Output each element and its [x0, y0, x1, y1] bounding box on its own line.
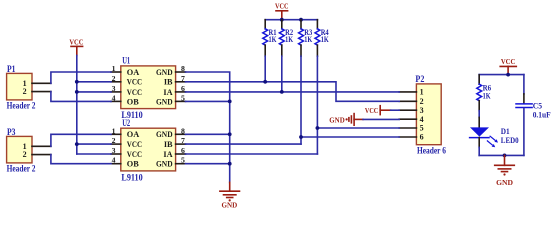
svg-text:1: 1: [112, 126, 116, 135]
P2 pin 3 stub: [399, 109, 416, 111]
svg-text:U1: U1: [122, 56, 130, 66]
junction R2/IA1: [280, 90, 284, 94]
svg-text:GND: GND: [156, 160, 173, 169]
capacitor C5 top pin: [523, 94, 525, 103]
GND stub (mid): [229, 182, 231, 191]
resistor R6 top pin: [478, 75, 480, 84]
svg-text:VCC: VCC: [127, 88, 142, 97]
svg-text:Header 2: Header 2: [7, 164, 36, 174]
U1 right pin 8 stub: [176, 71, 186, 73]
wire R1 lead down to IB1 net: [264, 56, 266, 82]
wire resistor top bus: [265, 19, 317, 21]
U1 right pin 7 stub: [176, 81, 186, 83]
svg-text:0.1uF: 0.1uF: [533, 110, 551, 120]
P3 pin 1 stub: [32, 145, 51, 147]
junction GND/bottom rail: [503, 154, 507, 158]
P3 pin 2 stub: [32, 154, 51, 156]
wire P1 pin1 to U1 pin OA: [51, 72, 111, 83]
connector P2 (Header 6) body: [416, 84, 441, 145]
svg-text:VCC: VCC: [127, 150, 142, 159]
resistor R3 body: [299, 29, 304, 45]
U1 left pin 4 stub: [111, 100, 121, 102]
svg-text:4: 4: [112, 156, 116, 165]
svg-text:5: 5: [181, 93, 185, 102]
GND stub to P2 pin4: [354, 118, 363, 120]
junction GND/U1.5: [228, 100, 232, 104]
GND right stub: [504, 155, 506, 165]
svg-text:OA: OA: [127, 68, 139, 77]
U2 right pin 8 stub: [176, 133, 186, 135]
svg-text:2: 2: [420, 97, 424, 106]
U2 left pin 3 stub: [111, 153, 121, 155]
resistor R2 bottom pin: [281, 45, 283, 56]
resistor R3 bottom pin: [300, 45, 302, 56]
P2 pin 1 stub: [399, 91, 416, 93]
wire R4 lead down to IA2 net: [316, 56, 318, 154]
P1 pin 1 stub: [32, 82, 51, 84]
wire right bottom rail: [479, 154, 524, 156]
svg-text:U2: U2: [122, 118, 130, 128]
svg-text:8: 8: [181, 64, 185, 73]
P2 pin 2 stub: [399, 100, 416, 102]
LED D1 cathode pin: [478, 138, 480, 148]
svg-text:2: 2: [23, 150, 27, 159]
wire P1 pin2 to U1 pin OB: [51, 92, 111, 102]
U2 right pin 5 stub: [176, 163, 186, 165]
svg-text:P3: P3: [7, 127, 16, 137]
wire VCC vertical rail: [76, 56, 78, 155]
wire U2 pin6 (IA) to R4 column: [186, 153, 318, 155]
svg-text:GND: GND: [156, 130, 173, 139]
U1 left pin 1 stub: [111, 71, 121, 73]
wire IB2 net to P2 pin6: [301, 136, 399, 138]
wire U2 pin5 to GND rail: [186, 163, 230, 165]
svg-text:Header 2: Header 2: [7, 101, 36, 111]
svg-text:1K: 1K: [285, 34, 293, 44]
wire R6 to D1: [478, 111, 480, 118]
junction R3/P2.6: [299, 135, 303, 139]
junction GND/U2.8: [228, 132, 232, 136]
wire VCC to U2 pin2: [77, 143, 111, 145]
svg-text:7: 7: [181, 136, 185, 145]
ground symbol (mid): [220, 190, 240, 192]
junction VCC/top rail: [506, 73, 510, 77]
svg-text:IB: IB: [164, 78, 173, 87]
svg-text:1: 1: [420, 88, 424, 97]
junction R1/IB1: [263, 80, 267, 84]
resistor R2 top pin: [281, 20, 283, 29]
svg-text:2: 2: [23, 87, 27, 96]
wire P3 pin1 to U2 pin OA: [51, 134, 111, 146]
op-chip U1 L9110 body: [121, 66, 176, 109]
svg-text:VCC: VCC: [275, 2, 289, 11]
svg-text:GND: GND: [156, 97, 173, 106]
junction VCC/U2.2: [75, 142, 79, 146]
svg-text:VCC: VCC: [69, 38, 83, 47]
svg-text:8: 8: [181, 126, 185, 135]
svg-text:L9110: L9110: [121, 173, 143, 183]
svg-text:3: 3: [112, 84, 116, 93]
P2 pin 5 stub: [399, 127, 416, 129]
U1 left pin 3 stub: [111, 91, 121, 93]
U2 right pin 7 stub: [176, 143, 186, 145]
U2 left pin 4 stub: [111, 163, 121, 165]
resistor R6 bottom pin: [478, 101, 480, 111]
junction top bus/R3: [299, 18, 303, 22]
svg-text:VCC: VCC: [127, 140, 142, 149]
svg-text:2: 2: [112, 74, 116, 83]
junction VCC/U1.3: [75, 90, 79, 94]
VCC stub to P2 pin3: [380, 109, 390, 111]
svg-text:IB: IB: [164, 140, 173, 149]
resistor R1 bottom pin: [264, 45, 266, 56]
wire U1 pin7 (IB) to P2 pin2 with jog: [186, 82, 400, 102]
svg-text:IA: IA: [163, 88, 172, 97]
svg-text:Header 6: Header 6: [417, 146, 446, 156]
svg-text:1: 1: [112, 64, 116, 73]
connector P1 (Header 2) body: [7, 73, 32, 100]
resistor R4 bottom pin: [316, 45, 318, 56]
resistor R1 body: [263, 29, 268, 45]
resistor R4 body: [315, 29, 320, 45]
LED D1 cathode bar: [470, 137, 489, 139]
wire C5 to bottom rail: [523, 108, 525, 155]
svg-text:4: 4: [112, 93, 116, 102]
junction R4/P2.5: [316, 126, 320, 130]
wire U1 pin6 (IA) straight to P2 pin1: [186, 91, 400, 93]
U1 right pin 5 stub: [176, 100, 186, 102]
svg-text:GND: GND: [222, 201, 238, 210]
VCC top stub: [281, 11, 283, 20]
op-chip U2 L9110 body: [121, 128, 176, 171]
wire GND to P2 pin4: [363, 118, 399, 120]
P1 pin 2 stub: [32, 91, 51, 93]
junction top bus/R2/VCC: [280, 18, 284, 22]
wire R3 lead down to IB2 net: [300, 56, 302, 144]
wire VCC to U2 pin3: [77, 153, 111, 155]
U1 right pin 6 stub: [176, 91, 186, 93]
wire VCC to U1 pin2: [77, 81, 111, 83]
junction VCC/U1.2: [75, 80, 79, 84]
P2 pin 4 stub: [399, 118, 416, 120]
svg-text:GND: GND: [496, 178, 513, 187]
U2 left pin 2 stub: [111, 143, 121, 145]
svg-text:P1: P1: [7, 64, 16, 74]
wire U1 pin5 to GND rail: [186, 100, 230, 102]
ground symbol (right): [495, 164, 515, 166]
svg-text:1K: 1K: [321, 34, 329, 44]
VCC right stub: [507, 66, 509, 74]
wire P3 pin2 to U2 pin OB: [51, 155, 111, 164]
svg-text:VCC: VCC: [127, 78, 142, 87]
resistor R4 top pin: [316, 20, 318, 29]
svg-text:1K: 1K: [483, 91, 491, 101]
LED D1 anode pin: [478, 117, 480, 127]
wire IA2 net to P2 pin5: [317, 127, 399, 129]
junction GND/U2.5: [228, 162, 232, 166]
svg-text:OA: OA: [127, 130, 139, 139]
svg-text:6: 6: [420, 133, 424, 142]
svg-text:1K: 1K: [269, 34, 277, 44]
wire U1 pin8 to GND rail: [186, 72, 230, 182]
resistor R2 body: [279, 29, 284, 45]
connector P3 (Header 2) body: [7, 136, 32, 163]
svg-text:IA: IA: [163, 150, 172, 159]
wire VCC to U1 pin3: [77, 91, 111, 93]
svg-text:VCC: VCC: [365, 106, 378, 115]
P2 pin 6 stub: [399, 136, 416, 138]
LED D1 triangle: [470, 127, 489, 136]
svg-text:1K: 1K: [304, 34, 312, 44]
resistor R1 top pin: [264, 20, 266, 29]
resistor R6 body: [477, 84, 482, 101]
wire R2 lead down to IA1 net: [281, 56, 283, 92]
svg-text:P2: P2: [415, 74, 424, 84]
svg-text:GND: GND: [156, 68, 173, 77]
svg-text:OB: OB: [127, 160, 139, 169]
svg-text:OB: OB: [127, 97, 139, 106]
svg-text:6: 6: [181, 146, 185, 155]
U1 left pin 2 stub: [111, 81, 121, 83]
LED D1 emission arrows: [487, 136, 498, 148]
svg-text:5: 5: [181, 156, 185, 165]
svg-text:5: 5: [420, 124, 424, 133]
U2 right pin 6 stub: [176, 153, 186, 155]
svg-text:GND: GND: [329, 115, 345, 124]
svg-text:3: 3: [112, 146, 116, 155]
wire right top rail: [479, 74, 524, 76]
VCC left stub: [76, 46, 78, 55]
U2 left pin 1 stub: [111, 133, 121, 135]
svg-text:3: 3: [420, 106, 424, 115]
svg-text:LED0: LED0: [501, 135, 519, 145]
capacitor C5 plates: [516, 103, 532, 105]
svg-text:VCC: VCC: [501, 57, 516, 66]
wire VCC to P2 pin3: [391, 109, 400, 111]
svg-text:7: 7: [181, 74, 185, 83]
resistor R3 top pin: [300, 20, 302, 29]
svg-text:4: 4: [420, 115, 424, 124]
svg-text:6: 6: [181, 84, 185, 93]
wire top rail corners down: [478, 75, 480, 85]
svg-text:2: 2: [112, 136, 116, 145]
wire U2 pin8 to GND rail: [186, 133, 230, 135]
wire D1 to bottom rail: [478, 147, 480, 155]
wire U2 pin7 (IB) to R3 column: [186, 143, 302, 145]
